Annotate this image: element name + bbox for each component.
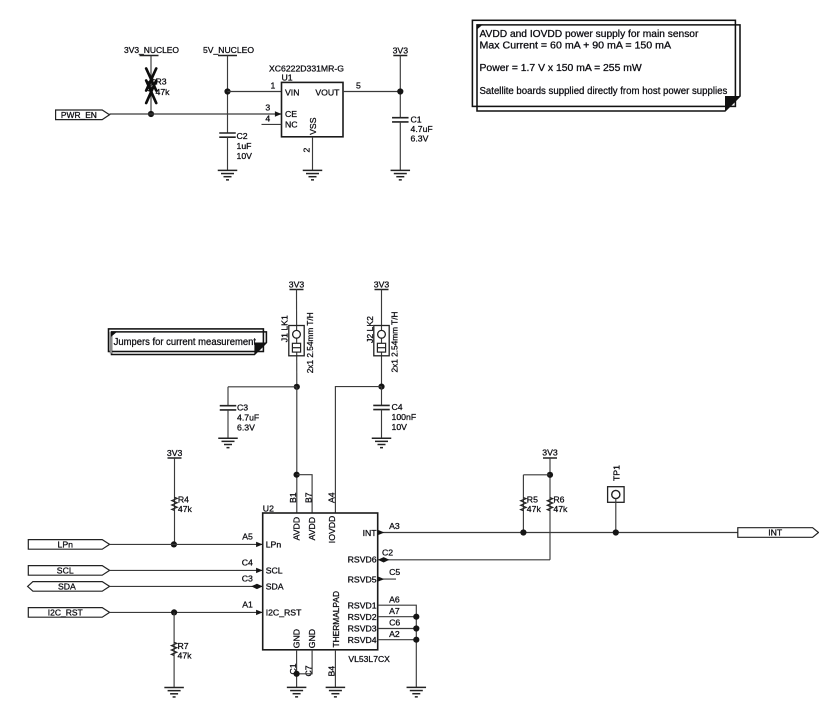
svg-text:AVDD: AVDD <box>307 517 317 541</box>
svg-text:47k: 47k <box>553 504 568 514</box>
svg-text:C3: C3 <box>242 574 253 584</box>
svg-text:VSS: VSS <box>308 117 318 135</box>
svg-text:A6: A6 <box>389 594 400 604</box>
svg-text:3V3: 3V3 <box>542 448 558 458</box>
svg-text:4.7uF: 4.7uF <box>237 413 259 423</box>
svg-text:LPn: LPn <box>266 540 282 550</box>
svg-text:3V3_NUCLEO: 3V3_NUCLEO <box>124 45 179 55</box>
svg-text:4.7uF: 4.7uF <box>411 124 433 134</box>
svg-text:RSVD1: RSVD1 <box>348 600 377 610</box>
svg-text:SDA: SDA <box>58 582 76 592</box>
svg-text:A1: A1 <box>242 600 253 610</box>
svg-text:6.3V: 6.3V <box>411 134 429 144</box>
svg-text:3V3: 3V3 <box>289 280 305 290</box>
svg-text:3V3: 3V3 <box>393 46 409 56</box>
svg-text:C1: C1 <box>411 115 422 125</box>
svg-text:3V3: 3V3 <box>167 448 183 458</box>
svg-text:B1: B1 <box>288 492 298 503</box>
svg-text:A4: A4 <box>327 492 337 503</box>
svg-text:C3: C3 <box>237 402 248 412</box>
svg-text:RSVD5: RSVD5 <box>348 574 377 584</box>
svg-text:2x1 2.54mm T/H: 2x1 2.54mm T/H <box>305 312 315 373</box>
svg-text:3V3: 3V3 <box>374 280 390 290</box>
svg-text:SDA: SDA <box>266 582 284 592</box>
svg-text:47k: 47k <box>527 504 542 514</box>
svg-text:A3: A3 <box>389 521 400 531</box>
svg-text:5: 5 <box>356 81 361 91</box>
svg-text:U1: U1 <box>282 72 293 82</box>
svg-text:SCL: SCL <box>266 566 283 576</box>
svg-text:47k: 47k <box>156 87 171 97</box>
svg-text:SCL: SCL <box>57 566 74 576</box>
svg-text:RSVD2: RSVD2 <box>348 612 377 622</box>
svg-text:3: 3 <box>265 103 270 113</box>
svg-text:2x1 2.54mm T/H: 2x1 2.54mm T/H <box>390 312 400 373</box>
svg-text:100nF: 100nF <box>392 412 417 422</box>
svg-text:GND: GND <box>307 629 317 648</box>
svg-text:VL53L7CX: VL53L7CX <box>348 654 390 664</box>
svg-text:Power = 1.7 V x 150 mA = 255 m: Power = 1.7 V x 150 mA = 255 mW <box>480 63 643 74</box>
svg-text:I2C_RST: I2C_RST <box>48 608 84 618</box>
svg-text:R7: R7 <box>178 641 189 651</box>
svg-text:RSVD6: RSVD6 <box>348 554 377 564</box>
svg-text:RSVD4: RSVD4 <box>348 635 377 645</box>
svg-text:INT: INT <box>768 528 783 538</box>
svg-text:TP1: TP1 <box>612 465 622 481</box>
svg-text:10V: 10V <box>237 151 253 161</box>
svg-text:LPn: LPn <box>58 540 74 550</box>
svg-text:A7: A7 <box>389 606 400 616</box>
svg-text:47k: 47k <box>178 651 193 661</box>
svg-text:AVDD and IOVDD power supply fo: AVDD and IOVDD power supply for main sen… <box>480 29 700 40</box>
svg-text:10V: 10V <box>392 422 408 432</box>
svg-text:B7: B7 <box>303 492 313 503</box>
svg-text:AVDD: AVDD <box>292 517 302 541</box>
svg-text:Jumpers for current measuremen: Jumpers for current measurement <box>114 337 257 348</box>
svg-text:XC6222D331MR-G: XC6222D331MR-G <box>269 64 344 74</box>
svg-text:C5: C5 <box>389 567 400 577</box>
svg-text:6.3V: 6.3V <box>237 423 255 433</box>
svg-text:R6: R6 <box>553 494 564 504</box>
svg-text:2: 2 <box>302 148 312 153</box>
svg-text:4: 4 <box>265 114 270 124</box>
svg-text:RSVD3: RSVD3 <box>348 624 377 634</box>
svg-text:A5: A5 <box>242 532 253 542</box>
svg-text:C2: C2 <box>237 131 248 141</box>
svg-text:VIN: VIN <box>285 88 299 98</box>
svg-text:C4: C4 <box>242 558 253 568</box>
svg-text:VOUT: VOUT <box>315 88 340 98</box>
svg-text:R5: R5 <box>527 494 538 504</box>
svg-text:I2C_RST: I2C_RST <box>266 608 302 618</box>
svg-text:GND: GND <box>292 629 302 648</box>
svg-text:THERMALPAD: THERMALPAD <box>331 591 341 648</box>
svg-text:1: 1 <box>271 81 276 91</box>
svg-text:J2 LK2: J2 LK2 <box>365 316 375 343</box>
svg-text:R4: R4 <box>178 494 189 504</box>
svg-text:R3: R3 <box>156 77 167 87</box>
svg-text:Max Current = 60 mA + 90 mA =: Max Current = 60 mA + 90 mA = 150 mA <box>480 40 672 51</box>
svg-text:C2: C2 <box>382 547 393 557</box>
svg-text:A2: A2 <box>389 629 400 639</box>
svg-text:47k: 47k <box>178 504 193 514</box>
svg-text:Satellite boards supplied dire: Satellite boards supplied directly from … <box>480 86 728 97</box>
svg-text:PWR_EN: PWR_EN <box>61 110 97 120</box>
svg-text:IOVDD: IOVDD <box>327 516 337 544</box>
svg-text:NC: NC <box>285 120 298 130</box>
svg-text:U2: U2 <box>263 503 274 513</box>
svg-text:INT: INT <box>363 528 378 538</box>
svg-text:CE: CE <box>285 109 297 119</box>
svg-text:1uF: 1uF <box>237 141 252 151</box>
svg-text:C4: C4 <box>392 402 403 412</box>
svg-text:5V_NUCLEO: 5V_NUCLEO <box>203 45 254 55</box>
svg-text:C6: C6 <box>389 618 400 628</box>
svg-text:J1 LK1: J1 LK1 <box>280 315 290 342</box>
